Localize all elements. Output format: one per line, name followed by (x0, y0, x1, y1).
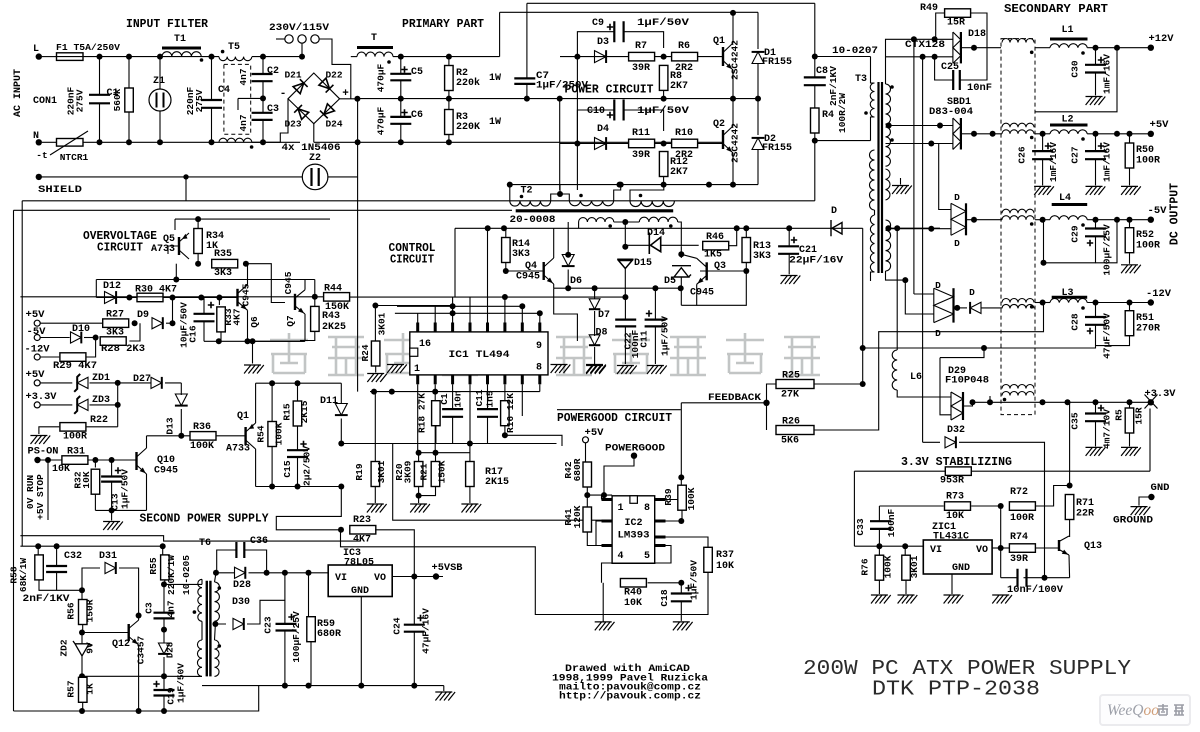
wire pin10 riser (521, 306, 523, 322)
svg-text:100K: 100K (686, 487, 697, 510)
wire pin6 down (504, 384, 506, 401)
pin stub IC2 left (602, 544, 613, 547)
transformer T2 winding 2 (569, 201, 613, 206)
svg-text:150K: 150K (436, 460, 447, 483)
pin stub IC1 top (538, 323, 541, 332)
svg-text:1K5: 1K5 (704, 250, 722, 261)
wire R52 down (1129, 253, 1131, 264)
ground R5 (1121, 447, 1141, 456)
svg-text:C18: C18 (659, 589, 670, 606)
polarity dot L3 (1081, 306, 1085, 310)
wire to C23 (284, 600, 286, 624)
junction (306, 683, 312, 689)
wire Q5-R34 to row (175, 264, 177, 280)
junction (661, 141, 667, 147)
svg-text:4K7: 4K7 (232, 308, 243, 325)
svg-text:-: - (280, 88, 287, 100)
svg-text:4n7: 4n7 (238, 68, 249, 85)
wire T3 pri bottom (871, 117, 875, 141)
svg-text:R76: R76 (860, 558, 871, 575)
diode D6 (562, 255, 574, 267)
svg-text:C29: C29 (1070, 225, 1081, 242)
svg-text:R52: R52 (1136, 230, 1154, 241)
wire powergood to pin (604, 456, 634, 495)
svg-text:100K: 100K (883, 555, 894, 578)
wire pin8 to R39 (666, 485, 682, 499)
svg-text:Q3: Q3 (714, 261, 726, 272)
wire T5 mid tap (238, 97, 263, 99)
wire D6 down (567, 270, 569, 289)
inductor L5 winding -5Va (1002, 209, 1034, 213)
capacitor C2 (252, 74, 273, 81)
wire -5 out (966, 219, 974, 221)
junction (126, 139, 132, 145)
capacitor C30 (1085, 65, 1106, 73)
wire emitter rail (510, 184, 758, 186)
resistor R76 (875, 555, 884, 580)
svg-text:CIRCUIT: CIRCUIT (97, 242, 143, 255)
wire Q10 collector (146, 436, 148, 448)
junction (1093, 217, 1099, 223)
wire +5V row (40, 322, 102, 324)
junction (1041, 260, 1047, 266)
ground R77 (898, 595, 918, 604)
polarity dot T2 w1 (520, 195, 524, 199)
wire to T6 top (164, 583, 202, 585)
wire to C6 (400, 99, 402, 117)
diode D32 (945, 437, 956, 448)
svg-text:T2: T2 (520, 186, 532, 197)
wire riser B long (922, 57, 924, 443)
wire stab top long (854, 470, 1150, 472)
junction (126, 295, 132, 301)
svg-text:C33: C33 (855, 518, 866, 535)
wire VO stub (992, 547, 1001, 549)
resistor R32 (91, 469, 100, 494)
transistor Q13 (1058, 540, 1060, 551)
svg-text:R54: R54 (256, 425, 267, 442)
ground C35 (1086, 447, 1106, 456)
svg-text:C945: C945 (154, 466, 178, 477)
varistor Z2 (302, 164, 328, 190)
wire C13 down (111, 482, 113, 511)
svg-text:D: D (954, 238, 960, 249)
svg-text:VO: VO (976, 545, 988, 556)
terminal (34, 380, 40, 386)
pin stub IC1 top (521, 323, 524, 332)
wire return to D29 area (940, 348, 984, 358)
transformer T6 lower left winding (197, 640, 202, 676)
inductor L5 winding 3V3a (1002, 385, 1034, 389)
junction (416, 493, 422, 499)
transistor Q1 A733 (244, 427, 246, 445)
resistor R28 (100, 337, 126, 346)
wire Q1 collector (732, 13, 734, 43)
wire top feed down (814, 3, 816, 56)
svg-text:2K25: 2K25 (322, 322, 346, 333)
svg-text:D: D (954, 192, 960, 203)
wire Q6 emitter (247, 310, 249, 341)
wire row443 right (470, 443, 557, 445)
svg-text:100R: 100R (1136, 241, 1160, 252)
svg-text:275V: 275V (75, 89, 86, 112)
wire to D1 (757, 12, 759, 49)
ground R17 (461, 504, 481, 513)
junction (198, 295, 204, 301)
wire to R1 (128, 57, 130, 88)
svg-text:5K6: 5K6 (781, 436, 799, 447)
wire to C26 (1042, 134, 1044, 151)
wire C10 left lead (577, 110, 614, 144)
junction (170, 320, 176, 326)
wire down to frame line (814, 141, 816, 201)
wire bottom rail cont (252, 141, 300, 143)
junction (79, 673, 85, 679)
wire R13 down (745, 263, 747, 272)
polarity dot T2 w2 (579, 194, 583, 198)
junction (126, 54, 132, 60)
wire R42 down (586, 487, 588, 495)
junction (902, 277, 908, 283)
svg-text:C24: C24 (392, 617, 403, 634)
capacitor C7 (514, 78, 535, 84)
wire to T3 primary bottom (815, 140, 871, 142)
pin stub IC1 top (416, 323, 419, 332)
wire R32 down (94, 494, 96, 510)
junction (786, 225, 792, 231)
junction (264, 570, 270, 576)
svg-text:1: 1 (414, 364, 420, 375)
junction (195, 261, 201, 267)
junction (446, 139, 452, 145)
wire pin5 down (487, 384, 489, 409)
wire R21 top (435, 453, 437, 462)
wire to C36 (217, 550, 237, 573)
wire to R58 (37, 546, 39, 555)
svg-text:C11: C11 (639, 330, 650, 347)
wire T6 pri top stub (201, 579, 203, 584)
svg-text:R30 4K7: R30 4K7 (135, 285, 177, 296)
svg-text:R10: R10 (675, 128, 693, 139)
wire D14 to R46 (661, 244, 699, 246)
svg-text:WeeQoo: WeeQoo (1107, 702, 1159, 719)
svg-text:220K: 220K (456, 122, 480, 133)
wire to R50 (1129, 134, 1131, 144)
wire R59 down (310, 642, 312, 686)
wire -5 to L4 (974, 219, 1002, 221)
wire R28 riser (129, 323, 140, 341)
junction (209, 54, 215, 60)
svg-text:150R: 150R (85, 599, 96, 622)
resistor R21 (431, 462, 440, 487)
diode D18 dual (960, 32, 962, 63)
wire T3 left link (874, 210, 876, 215)
wire pin4 down (469, 384, 471, 443)
wire -5V out (1087, 219, 1151, 221)
junction (433, 450, 439, 456)
svg-text:4n7: 4n7 (238, 114, 249, 131)
diode D12 (105, 292, 117, 304)
resistor R72 (1009, 502, 1035, 511)
capacitor C13 (101, 477, 122, 482)
svg-text:AC INPUT: AC INPUT (13, 69, 24, 117)
junction (971, 217, 977, 223)
svg-text:2K15: 2K15 (299, 400, 310, 423)
svg-text:-5V: -5V (1148, 206, 1167, 217)
capacitor C9 (614, 21, 623, 42)
wire R55 down (164, 580, 166, 584)
wire drive column B (559, 99, 561, 190)
wire VO out (392, 576, 443, 578)
svg-text:R51: R51 (1136, 313, 1154, 324)
transformer T3 secondary 2 (886, 127, 891, 166)
pin stub IC1 bottom (434, 375, 437, 384)
resistor R46 (703, 241, 729, 250)
bridge rectifier D21-D24 diamond (288, 73, 340, 124)
wire L6 to D29 top (897, 390, 951, 397)
wire R73 out (971, 505, 1001, 507)
regulator IC3 78L05 body (328, 565, 392, 597)
junction (1040, 300, 1046, 306)
wire pin16 (417, 313, 419, 322)
wire R14 to Q4 base (506, 270, 544, 272)
wire +12 return (1035, 48, 1117, 112)
wire pin1 up (601, 495, 603, 499)
svg-text:1µF/50V: 1µF/50V (659, 316, 670, 356)
wire C10 right lead (624, 110, 664, 131)
svg-text:INPUT FILTER: INPUT FILTER (126, 18, 208, 31)
pin stub IC2 left (602, 520, 613, 523)
pin stub IC2 left (602, 498, 613, 501)
wire powergood top edge (557, 409, 681, 411)
wire to R59 (308, 573, 310, 618)
svg-text:D5: D5 (664, 276, 676, 287)
plus C27 (1098, 143, 1104, 149)
wire R33 down (220, 332, 222, 341)
resistor R23 (350, 526, 376, 535)
wire R5 down (1129, 433, 1131, 446)
svg-text:220k: 220k (456, 77, 480, 89)
svg-text:680R: 680R (317, 629, 341, 640)
wire C35 down (1095, 421, 1097, 446)
switch contact 1 (285, 35, 293, 43)
resistor R19 (371, 462, 380, 487)
polarity dot T2 sec a (608, 224, 612, 228)
wire to C21 (788, 228, 790, 246)
svg-text:9V: 9V (85, 642, 96, 654)
wire Q5 base (168, 246, 179, 254)
wire D30 out (247, 573, 285, 624)
svg-text:100K: 100K (190, 441, 214, 452)
wire Q3 collector (681, 254, 696, 258)
wire to C8 (814, 57, 816, 78)
svg-text:D32: D32 (947, 425, 965, 436)
junction (115, 402, 121, 408)
wire T2 sec to D6 (567, 222, 569, 255)
polarity dot L5 c (1030, 222, 1034, 226)
wire T5 tap down (237, 98, 239, 110)
wire to R2 (448, 57, 450, 66)
svg-text:C15: C15 (282, 460, 293, 477)
wire control box edge (393, 444, 612, 521)
wire R77 down (905, 581, 907, 594)
polarity dot T5 top (221, 50, 225, 54)
wire to C28 (1095, 303, 1097, 318)
junction (132, 320, 138, 326)
wire R13 to Q3 loop (697, 271, 747, 305)
wire +5V out (1087, 133, 1151, 135)
wire R19 down (374, 487, 376, 504)
capacitor C10 (614, 100, 623, 121)
wire inner frame left (21, 201, 23, 546)
wire to D7 (594, 288, 596, 299)
svg-text:SHIELD: SHIELD (38, 185, 82, 196)
svg-text:Q13: Q13 (1084, 541, 1102, 552)
wire R17 down (469, 487, 471, 504)
wire return riser (1043, 220, 1045, 263)
junction (885, 225, 891, 231)
wire D15 down (624, 269, 626, 298)
polarity dot L4 (1081, 223, 1085, 227)
wire emitter link down (554, 288, 578, 341)
resistor R34 (194, 229, 203, 254)
junction (109, 457, 115, 463)
svg-text:D8: D8 (595, 328, 607, 339)
ground R76 (871, 595, 891, 604)
inductor T core bar (357, 46, 393, 49)
wire -5 in2 (886, 228, 952, 230)
wire to C16 (203, 298, 205, 314)
svg-text:2µ2/50V: 2µ2/50V (302, 446, 313, 486)
junction (503, 268, 509, 274)
svg-text:100µF/25V: 100µF/25V (291, 611, 302, 663)
wire zd3 out (90, 404, 118, 406)
wire to C2 (262, 57, 264, 74)
diode D21 (293, 79, 308, 94)
junction (998, 545, 1004, 551)
junction (730, 182, 736, 188)
junction (734, 225, 740, 231)
svg-text:1µF/50V: 1µF/50V (637, 17, 689, 29)
svg-text:R74: R74 (1010, 532, 1028, 543)
transformer T6 core (207, 581, 211, 677)
wire aux gnd stub (900, 178, 902, 185)
wire drive column A (576, 57, 578, 190)
svg-text:PS-ON: PS-ON (28, 447, 59, 458)
wire C18 down (680, 601, 682, 621)
svg-text:C11: C11 (474, 389, 485, 406)
junction (1065, 399, 1071, 405)
resistor R14 (502, 238, 511, 263)
wire d28 out (249, 572, 329, 574)
inductor L5 winding -12Vb (1002, 304, 1034, 308)
svg-text:R35: R35 (214, 249, 232, 260)
wire top rail to switch node (252, 56, 302, 58)
wire C26 down (1042, 159, 1044, 185)
wire R17 top (469, 444, 471, 462)
svg-text:+12V: +12V (1149, 34, 1174, 45)
resistor R25 (776, 380, 814, 389)
ground R50 (1121, 186, 1141, 195)
svg-text:D21: D21 (284, 70, 301, 81)
wire bridge minus (280, 99, 288, 143)
junction (358, 683, 364, 689)
diode D2 FR155 (752, 138, 764, 150)
svg-text:D15: D15 (634, 258, 652, 269)
wire to C13 (111, 460, 113, 477)
wire T3 pri top (871, 57, 875, 84)
wire from C4 (211, 108, 213, 143)
diode -5V dual (965, 203, 967, 235)
resistor R6 (672, 52, 698, 61)
wire C2 to C3 (262, 81, 264, 98)
wire T2 w3 riser (630, 185, 664, 201)
wire zd3 row (40, 404, 72, 406)
svg-text:1mF/16V: 1mF/16V (1102, 54, 1113, 94)
wire R71 riser (1069, 402, 1071, 485)
svg-text:C2: C2 (267, 66, 279, 77)
resistor R41 (583, 507, 592, 532)
svg-text:120K: 120K (572, 505, 583, 528)
wire C33 down (878, 529, 880, 546)
watermark chinese text (270, 333, 308, 373)
capacitor C1 (89, 95, 110, 104)
wire -12V row (40, 356, 59, 358)
wire to C24 (413, 577, 415, 625)
zener ZD1 (77, 377, 88, 388)
wire Q4 collector (553, 228, 555, 258)
svg-text:C35: C35 (1070, 412, 1081, 429)
svg-text:C21: C21 (799, 245, 817, 256)
wire R57 down (82, 702, 84, 711)
wire to C4 (211, 57, 213, 100)
svg-text:L6: L6 (910, 372, 922, 383)
junction (411, 574, 417, 580)
wire C24 down (413, 632, 415, 686)
wire R50 down (1129, 168, 1131, 185)
svg-text:3K3: 3K3 (214, 268, 232, 279)
svg-text:20-0008: 20-0008 (510, 215, 556, 226)
junction (501, 225, 507, 231)
op-amp IC2 LM393 body (612, 496, 655, 564)
junction (79, 708, 85, 714)
svg-text:R24: R24 (360, 344, 371, 361)
inductor T winding (357, 52, 393, 57)
junction (678, 251, 684, 257)
resistor R49 (945, 9, 971, 17)
wire R3 down (448, 135, 450, 143)
capacitor 10nF/100V (1018, 569, 1027, 587)
wire primary top rail (393, 56, 500, 58)
resistor R30 (137, 293, 163, 302)
svg-text:1W: 1W (489, 117, 501, 128)
wire R13 tap (700, 270, 746, 272)
capacitor C26 (1032, 151, 1053, 159)
wire to Q12 base (82, 632, 129, 634)
junction (109, 507, 115, 513)
wire rail to Q5 (174, 219, 176, 230)
transformer T3 left winding 3 (870, 215, 874, 272)
wire C6 down (400, 124, 402, 143)
svg-text:SECOND POWER SUPPLY: SECOND POWER SUPPLY (140, 513, 269, 526)
wire to C27 (1095, 134, 1097, 151)
switch contact 2 (298, 35, 306, 43)
wire rail to gnd stub (111, 510, 113, 520)
wire -5V row (40, 337, 69, 339)
wire R29 riser (87, 341, 96, 357)
svg-text:T3: T3 (855, 74, 867, 85)
inductor L5 winding +12V (1002, 39, 1034, 43)
